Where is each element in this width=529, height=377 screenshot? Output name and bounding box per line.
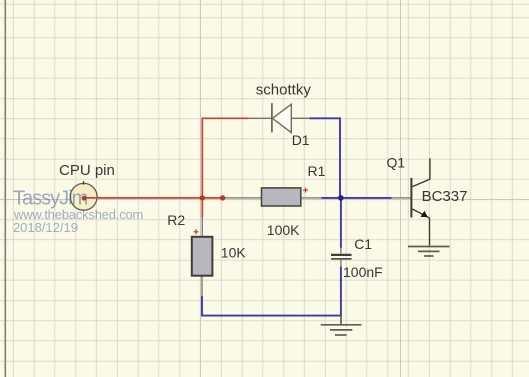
watermark TassyJim bbox=[13, 188, 88, 210]
label C1 bbox=[354, 236, 372, 252]
svg-text:10K: 10K bbox=[221, 245, 247, 261]
value 100K bbox=[267, 222, 300, 238]
wire: diode D1 to base node (blue) bbox=[310, 118, 341, 198]
wire: main junction up and over to diode D1 (red) bbox=[202, 118, 248, 198]
svg-text:100nF: 100nF bbox=[343, 264, 383, 280]
junction dot main (red) bbox=[200, 195, 205, 200]
label CPU pin bbox=[59, 162, 115, 179]
resistor R2 bbox=[192, 217, 213, 297]
svg-text:schottky: schottky bbox=[256, 81, 312, 98]
wire: C1 bottom to ground rail (blue) bbox=[340, 267, 342, 316]
value BC337 bbox=[422, 188, 468, 205]
wire: base node down to C1 (blue) bbox=[340, 198, 342, 248]
label R1 bbox=[308, 163, 326, 179]
svg-text:2018/12/19: 2018/12/19 bbox=[13, 220, 78, 235]
svg-text:Q1: Q1 bbox=[387, 155, 406, 171]
junction dot at Q1 base node (blue) bbox=[338, 195, 344, 201]
svg-text:R2: R2 bbox=[167, 212, 185, 228]
junction dot at CPU pin centre (red) bbox=[82, 196, 87, 201]
diode D1 schottky bbox=[249, 103, 310, 132]
svg-text:C1: C1 bbox=[354, 236, 372, 252]
label schottky bbox=[256, 81, 312, 98]
ground below C1 bbox=[321, 315, 362, 335]
pin P1 CPU pin (terminal circle) bbox=[70, 181, 97, 210]
svg-text:100K: 100K bbox=[267, 222, 300, 238]
watermark www.thebackshed.com bbox=[13, 207, 143, 222]
svg-text:CPU pin: CPU pin bbox=[59, 162, 115, 179]
wire: main junction down to R2 (red) bbox=[201, 198, 203, 218]
svg-text:R1: R1 bbox=[308, 163, 326, 179]
ground below Q1 emitter bbox=[408, 247, 450, 257]
label Q1 bbox=[387, 155, 406, 171]
transistor Q1 bbox=[392, 158, 430, 246]
wire: R1 to Q1 base (blue) bbox=[321, 197, 391, 199]
label R2 bbox=[167, 212, 185, 228]
value 100nF bbox=[343, 264, 383, 280]
value 10K bbox=[221, 245, 247, 261]
resistor R1 bbox=[223, 188, 322, 206]
wire: CPU pin to main junction (red) bbox=[84, 197, 223, 199]
svg-text:BC337: BC337 bbox=[422, 188, 468, 205]
unconnected pin marker near R1 (red cross) bbox=[303, 188, 308, 193]
svg-text:D1: D1 bbox=[292, 132, 310, 148]
junction dot at R1 left pin (red) bbox=[220, 195, 225, 200]
capacitor C1 bbox=[331, 247, 352, 268]
unconnected pin marker near R2 (red cross) bbox=[194, 229, 199, 234]
watermark date 2018/12/19 bbox=[13, 220, 78, 235]
wire: R2 bottom to ground rail (blue) bbox=[202, 296, 342, 316]
label D1 bbox=[292, 132, 310, 148]
